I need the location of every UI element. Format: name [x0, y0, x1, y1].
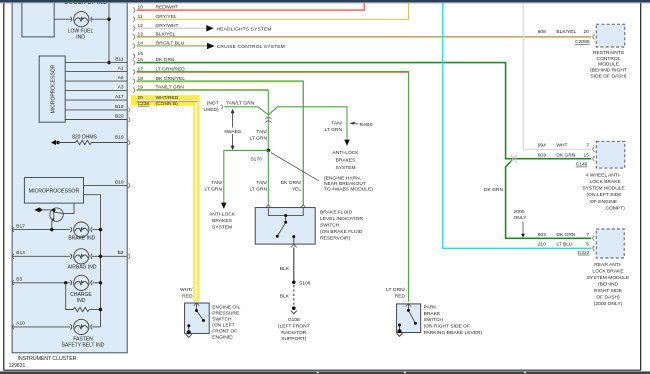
svg-text:AIRBAG IND: AIRBAG IND [68, 265, 97, 271]
ground G108 [292, 306, 296, 310]
svg-text:RABS: RABS [360, 122, 374, 128]
svg-text:(ON BRAKE FLUID: (ON BRAKE FLUID [320, 229, 363, 235]
svg-text:SAFETY BELT IND: SAFETY BELT IND [62, 342, 105, 348]
svg-text:TAN/LT GRN: TAN/LT GRN [226, 100, 255, 106]
svg-text:TAN/: TAN/ [331, 121, 342, 127]
wire BLK dashed [293, 285, 295, 306]
wire S170 left branch to ABS [224, 150, 268, 202]
wire 210 LT BLU [443, 3, 592, 248]
svg-text:5: 5 [586, 242, 589, 248]
svg-text:BRAKE: BRAKE [424, 311, 441, 317]
4WABS bracket arrow [231, 109, 235, 151]
wire lamp to vertical [91, 18, 109, 20]
svg-text:B3: B3 [16, 277, 22, 283]
node base bar top [52, 209, 55, 212]
vertical wire to pin B11 [108, 0, 110, 63]
svg-text:WHT/: WHT/ [180, 287, 193, 293]
node charge lamp left [64, 281, 67, 284]
brake fluid level indicator switch box [255, 208, 315, 245]
wire 16 branch down to C222 [506, 159, 592, 239]
connector arcs C222 [593, 236, 595, 241]
top chrome band [0, 0, 650, 2]
C236 connector arcs rows 10-20 [128, 8, 134, 259]
wire 10 RED/WHT [137, 3, 365, 10]
arrow down to anti-lock brakes system (left) [221, 203, 227, 209]
svg-text:OF ENGINE: OF ENGINE [590, 199, 618, 205]
svg-text:603: 603 [538, 152, 546, 158]
svg-text:USED): USED) [203, 107, 219, 113]
resistor R charge shunt [73, 307, 89, 311]
svg-text:LOCK BRAKE: LOCK BRAKE [590, 179, 622, 185]
park brake switch box [397, 304, 421, 333]
svg-text:SYSTEM: SYSTEM [212, 225, 232, 231]
svg-text:WHT: WHT [556, 143, 567, 149]
svg-text:BLK: BLK [280, 266, 290, 272]
svg-text:DK GRN: DK GRN [556, 232, 575, 238]
wire lamp to feed vertical [92, 282, 100, 284]
pin A2 line [65, 80, 127, 82]
wire B3 row [12, 282, 70, 284]
wire BLK solid [293, 248, 295, 282]
entry chevron [194, 303, 200, 306]
connector arc B3 [12, 280, 14, 285]
splice S106 [292, 281, 296, 285]
arrow down to anti-lock brakes system (right RABS) [344, 140, 350, 146]
svg-text:HEADLIGHTS SYSTEM: HEADLIGHTS SYSTEM [217, 26, 272, 32]
svg-text:COMPT): COMPT) [606, 205, 626, 211]
svg-text:LT GRN: LT GRN [250, 187, 268, 193]
wire 18 DK GRN/YEL [137, 81, 304, 205]
C146 labels [538, 143, 590, 168]
svg-text:PARKING BRAKE LEVER): PARKING BRAKE LEVER) [424, 330, 483, 336]
wire lamp to feed vertical and to pin B2 [92, 255, 127, 257]
wire 14 ORG/LT BLU [137, 45, 208, 47]
svg-text:LT BLU: LT BLU [556, 242, 573, 248]
svg-text:4WABS: 4WABS [224, 129, 242, 135]
svg-text:RIGHT SIDE: RIGHT SIDE [594, 288, 623, 294]
svg-text:B19: B19 [115, 135, 124, 141]
connector arc B17 [12, 227, 14, 232]
svg-text:LOCK BRAKE: LOCK BRAKE [592, 269, 624, 275]
microprocessor box U2 [24, 178, 83, 204]
svg-text:TAN/: TAN/ [256, 129, 267, 135]
svg-text:(ON LEFT SIDE: (ON LEFT SIDE [587, 192, 623, 198]
wire S170 down to switch [267, 150, 269, 205]
svg-text:BRAKES: BRAKES [212, 218, 233, 224]
svg-text:(NOT: (NOT [207, 101, 219, 107]
inline connector chevrons on TAN/LT GRN vertical [265, 117, 272, 122]
node resistor to feed vertical [99, 308, 102, 311]
splice S170 [267, 149, 271, 153]
node transistor emitter on B17 wire [50, 228, 53, 231]
wire 19 TAN/LT GRN [137, 90, 269, 150]
svg-text:LT GRN: LT GRN [250, 135, 268, 141]
svg-text:TAN/: TAN/ [256, 180, 267, 186]
svg-text:FRONT OF: FRONT OF [212, 329, 237, 335]
exit chevron bottom [291, 244, 297, 247]
pin B11 line [65, 62, 127, 64]
svg-text:YEL: YEL [292, 187, 302, 193]
svg-text:(ON LEFT: (ON LEFT [212, 323, 234, 329]
svg-text:S170: S170 [250, 157, 262, 163]
svg-text:820 OHMS: 820 OHMS [72, 135, 97, 141]
svg-text:15: 15 [584, 152, 590, 158]
indicator lamp BRAKE IND [70, 222, 92, 237]
svg-text:RED: RED [182, 293, 193, 299]
svg-text:BLK: BLK [280, 294, 290, 300]
microprocessor box U1 (vertical) [39, 56, 65, 122]
pin A1 line [65, 71, 127, 73]
connector arc A10 [12, 325, 14, 330]
charge shunt branch wire [66, 283, 74, 310]
wire B17 row [12, 229, 70, 231]
wire lamp to feed vertical [92, 229, 100, 231]
svg-text:129831: 129831 [9, 363, 26, 369]
svg-text:SIDE OF DASH): SIDE OF DASH) [590, 74, 627, 80]
svg-text:B11: B11 [115, 57, 124, 63]
svg-text:IND: IND [77, 298, 86, 304]
bottom band ticks [317, 372, 526, 374]
svg-text:SYSTEM MODULE: SYSTEM MODULE [587, 275, 630, 281]
arrow to headlights system [206, 25, 213, 32]
wire from fuel gauge to low fuel lamp [54, 18, 72, 20]
switch internal wiring [268, 208, 303, 244]
svg-text:BLK/YEL: BLK/YEL [556, 29, 576, 35]
wire 11 GRY/YEL [137, 3, 409, 19]
wire 12 GRY/WHT [137, 27, 207, 29]
svg-text:603: 603 [538, 232, 546, 238]
svg-text:INSTRUMENT CLUSTER: INSTRUMENT CLUSTER [18, 356, 77, 362]
bottom chrome band [0, 371, 650, 374]
svg-text:B2: B2 [118, 250, 124, 256]
svg-text:ENGINE OIL: ENGINE OIL [212, 305, 240, 311]
svg-text:RADIATOR: RADIATOR [281, 330, 306, 336]
svg-text:B13: B13 [16, 250, 25, 256]
yellow highlight band circuit 20 [131, 95, 200, 301]
svg-text:A17: A17 [115, 94, 124, 100]
wire 20 WHT/RED core [137, 100, 197, 301]
arrow to cruise control system [207, 43, 215, 50]
indicator lamp AIRBAG IND [70, 249, 92, 264]
svg-text:RED: RED [395, 293, 406, 299]
pin B10 line [84, 185, 128, 187]
svg-text:15: 15 [138, 51, 144, 57]
engine harn note pointer line [271, 153, 319, 181]
entry chevron [406, 304, 412, 307]
4 wheel anti-lock brake system module box [596, 141, 625, 168]
fuel gauge box (cut off at top) [22, 0, 54, 37]
wire row texts [138, 5, 186, 107]
svg-text:A10: A10 [16, 321, 25, 327]
wire A10 row [12, 326, 70, 328]
svg-text:SWITCH: SWITCH [320, 223, 340, 229]
svg-text:B17: B17 [16, 223, 25, 229]
node brake lamp feed [99, 228, 102, 231]
lamp feed wire from microprocessor [84, 195, 101, 327]
connector arc C2005 [593, 34, 595, 39]
svg-text:CONTROL: CONTROL [597, 56, 621, 62]
svg-text:LT GRN/: LT GRN/ [386, 287, 405, 293]
TAN/LT GRN not-used stub connector arc [221, 104, 223, 109]
svg-text:C146: C146 [576, 162, 588, 168]
low fuel ind lamp terminal marks [70, 17, 92, 22]
svg-text:ONLY: ONLY [514, 215, 528, 221]
svg-text:SYSTEM: SYSTEM [335, 165, 355, 171]
svg-text:MICROPROCESSOR: MICROPROCESSOR [51, 64, 57, 113]
svg-text:SUPPORT): SUPPORT) [281, 336, 307, 342]
ground chevron below park brake switch [397, 333, 403, 336]
junction node at B11 [107, 61, 110, 64]
entry chevron left pin [266, 205, 272, 208]
svg-text:7: 7 [586, 143, 589, 149]
svg-text:G108: G108 [288, 317, 300, 323]
engine oil pressure switch box [185, 303, 210, 333]
svg-text:A3: A3 [118, 85, 124, 91]
svg-text:ANTI-LOCK: ANTI-LOCK [209, 212, 236, 218]
pin B20 line [65, 119, 127, 121]
svg-text:A1: A1 [118, 66, 124, 72]
svg-text:BRAKES: BRAKES [336, 157, 357, 163]
C2005 labels [538, 29, 590, 45]
svg-text:IND: IND [76, 35, 85, 41]
indicator lamp FASTEN SAFETY BELT IND [70, 319, 92, 334]
entry chevron right pin [300, 205, 306, 208]
svg-text:SYSTEM MODULE: SYSTEM MODULE [582, 186, 625, 192]
svg-text:MICROPROCESSOR: MICROPROCESSOR [29, 189, 80, 195]
connector arc B13 [12, 254, 14, 259]
connector arcs C146 [593, 147, 595, 152]
svg-text:ENGINE): ENGINE) [212, 335, 233, 341]
svg-text:7: 7 [586, 232, 589, 238]
svg-text:PARK: PARK [424, 305, 438, 311]
page border left [3, 0, 5, 370]
svg-text:OF DASH): OF DASH) [596, 295, 620, 301]
pin A3 line [65, 89, 127, 91]
indicator lamp LOW FUEL IND [74, 12, 89, 27]
restraints control module box [596, 24, 625, 47]
wire 16 DK GRN [137, 63, 592, 159]
svg-text:C2005: C2005 [575, 39, 590, 45]
svg-text:LT GRN: LT GRN [205, 187, 223, 193]
wire 13 BLK/YEL [137, 36, 592, 38]
page border bottom [4, 369, 641, 371]
indicator lamp CHARGE IND [70, 275, 92, 290]
page border right [640, 0, 642, 370]
svg-text:PRESSURE: PRESSURE [212, 311, 240, 317]
svg-text:TO 4WABS MODULE): TO 4WABS MODULE) [324, 187, 373, 193]
transistor base stub arrow [34, 207, 39, 212]
oil switch internals [189, 303, 204, 333]
svg-text:608: 608 [538, 29, 546, 35]
svg-text:(CONN B): (CONN B) [156, 101, 179, 107]
junction node at lamp wire [107, 18, 110, 21]
svg-text:(BEHIND: (BEHIND [598, 282, 619, 288]
svg-text:ANTI-LOCK: ANTI-LOCK [332, 150, 359, 156]
resistor 820 OHMS left arrow terminal [51, 140, 56, 145]
svg-text:B10: B10 [115, 180, 124, 186]
svg-text:RESERVOIR): RESERVOIR) [320, 236, 351, 242]
svg-text:S106: S106 [299, 281, 311, 287]
svg-text:(ON RIGHT SIDE OF: (ON RIGHT SIDE OF [424, 324, 470, 330]
svg-text:C222: C222 [578, 250, 590, 256]
svg-text:DK GRN/: DK GRN/ [281, 180, 302, 186]
svg-text:BRAKE FLUID: BRAKE FLUID [320, 210, 353, 216]
node at transistor base [39, 208, 42, 211]
pin B18 line [65, 109, 127, 111]
transistor emitter arrowhead [51, 218, 54, 221]
svg-text:B20: B20 [115, 114, 124, 120]
C222 labels [538, 232, 590, 256]
wire 17 LT GRN/RED [137, 72, 409, 302]
resistor R 820 OHMS [58, 140, 127, 144]
pin A17 line [65, 99, 127, 101]
svg-text:(LEFT FRONT: (LEFT FRONT [278, 324, 310, 330]
svg-text:SWITCH: SWITCH [424, 317, 444, 323]
transistor Q1 [41, 204, 74, 230]
rear anti-lock brake system module box [596, 229, 624, 258]
svg-text:SWITCH: SWITCH [212, 317, 232, 323]
svg-text:DK GRN: DK GRN [484, 187, 503, 193]
svg-text:DK GRN: DK GRN [556, 152, 575, 158]
svg-text:MODULE: MODULE [598, 62, 620, 68]
svg-text:REAR ANTI-: REAR ANTI- [594, 262, 622, 268]
svg-text:2000: 2000 [514, 209, 525, 215]
not used stub wire [224, 107, 268, 115]
node airbag lamp feed [99, 255, 102, 258]
svg-text:CRUISE CONTROL SYSTEM: CRUISE CONTROL SYSTEM [217, 44, 285, 50]
svg-text:(2000 ONLY): (2000 ONLY) [594, 301, 623, 307]
svg-text:20: 20 [584, 29, 590, 35]
svg-text:C236: C236 [138, 101, 150, 107]
svg-text:LT GRN: LT GRN [325, 127, 343, 133]
svg-text:210: 210 [538, 242, 546, 248]
svg-text:NEAR BREAKOUT: NEAR BREAKOUT [324, 181, 366, 187]
svg-text:TAN/: TAN/ [211, 180, 222, 186]
wire 994 WHT [523, 3, 591, 149]
RABS pointer arrow [349, 122, 355, 125]
svg-text:4 WHEEL ANTI-: 4 WHEEL ANTI- [586, 172, 622, 178]
park brake switch internals [400, 304, 416, 332]
svg-text:994: 994 [538, 143, 546, 149]
instrument cluster outline box [12, 0, 127, 353]
svg-text:RESTRAINTS: RESTRAINTS [593, 50, 625, 56]
wire B13 row [12, 255, 70, 257]
ground chevron below oil switch [186, 334, 192, 337]
wire lamp to feed vertical [92, 326, 100, 328]
node at 820 ohms resistor [56, 141, 59, 144]
svg-text:BRAKE IND: BRAKE IND [68, 236, 95, 242]
svg-text:A2: A2 [118, 75, 124, 81]
RABS branch wire [268, 107, 347, 140]
node charge lamp feed [99, 281, 102, 284]
svg-text:B18: B18 [115, 104, 124, 110]
switch contact nodes [284, 214, 287, 217]
svg-text:LEVEL INDICATOR: LEVEL INDICATOR [320, 216, 363, 222]
svg-text:(BEHIND RIGHT: (BEHIND RIGHT [590, 68, 627, 74]
inline connector pair on DK GRN at C222 branch [511, 155, 517, 163]
svg-text:(ENGINE HARN,: (ENGINE HARN, [324, 176, 361, 182]
